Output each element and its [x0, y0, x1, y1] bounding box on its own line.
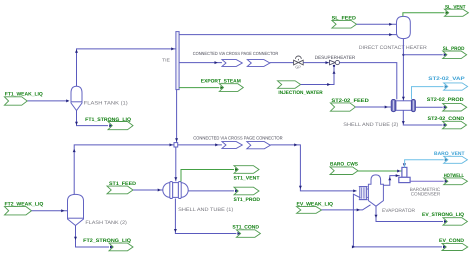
svg-text:FT1_STRONG_LIQ: FT1_STRONG_LIQ [85, 117, 131, 123]
sink flag EXPORT_STEAM [201, 78, 244, 91]
wire ST1 condensate to ST1_COND [174, 199, 241, 235]
svg-text:EXPORT_STEAM: EXPORT_STEAM [201, 78, 241, 84]
wire ST2-02_FEED to exchanger [355, 106, 391, 109]
sink flag HOTWELL [444, 173, 468, 185]
wire FT1 vapor riser to TIE [75, 47, 176, 86]
barometric condenser BC [399, 163, 410, 182]
sink flag ST2-02_PROD [427, 97, 467, 111]
sink flag ST2-02_VAP [428, 76, 467, 90]
wire ST2 product to ST2-02_PROD [415, 106, 447, 109]
wire valve to desuperheater [303, 61, 329, 64]
svg-text:ST2-02_PROD: ST2-02_PROD [427, 97, 464, 103]
wire FT1 feed line (FT1_WEAK_LIQ to flash tank 1) [27, 99, 69, 102]
svg-text:SL_VENT: SL_VENT [445, 4, 466, 10]
source flag FT2_WEAK_LIQ [5, 201, 44, 215]
source flag SL_FEED [332, 15, 357, 28]
sink flag ST1_PROD [234, 187, 261, 203]
label EVAPORATOR [382, 208, 415, 214]
svg-text:SHELL AND TUBE (2): SHELL AND TUBE (2) [343, 122, 398, 128]
wire ST2 condensate to ST2-02_COND [402, 110, 447, 126]
sink flag ST2-02_COND [428, 116, 467, 129]
sink flag FT2_STRONG_LIQ [83, 238, 133, 251]
svg-text:BARO_CWS: BARO_CWS [330, 162, 359, 168]
label FLASH TANK (2) [85, 220, 127, 226]
label FLASH TANK (1) [84, 100, 128, 106]
svg-text:DIRECT CONTACT HEATER: DIRECT CONTACT HEATER [359, 45, 427, 51]
flash tank FT1 (1) [71, 86, 82, 110]
sink flag EV_STRONG_LIQ [422, 212, 467, 225]
wire ST1 vent to ST1_VENT (green) [181, 168, 238, 181]
wire FT1 bottoms to FT1_STRONG_LIQ [75, 111, 112, 128]
wire heater bottoms down to shell and tube 2 shell inlet [402, 39, 405, 101]
label SHELL AND TUBE (2) [343, 122, 398, 128]
wire junction to cross page connector (bottom) [178, 143, 222, 146]
svg-text:CONDENSER: CONDENSER [411, 192, 441, 198]
source flag EV_WEAK_LIQ [297, 202, 334, 214]
wire cross page connector to evaporator steam inlet [270, 143, 356, 192]
wire FT2 vapor riser to junction [73, 143, 174, 194]
svg-text:SL_PROD: SL_PROD [443, 46, 465, 52]
tie junction TIE [162, 32, 179, 90]
evaporator EV [359, 175, 384, 206]
svg-text:ST2-02_FEED: ST2-02_FEED [331, 98, 369, 104]
svg-text:FT2_WEAK_LIQ: FT2_WEAK_LIQ [5, 201, 44, 207]
wire TIE to direct contact heater [179, 33, 396, 36]
direct contact heater U1 [397, 16, 411, 38]
shell and tube HX2 [391, 99, 415, 111]
sink flag BARO_VENT [434, 151, 467, 163]
source flag BARO_CWS [330, 162, 359, 175]
wire TIE to export steam (green) [179, 86, 224, 89]
wire evaporator condensate to EV_COND [352, 194, 446, 248]
source flag FT1_WEAK_LIQ [4, 92, 43, 106]
shell and tube HX1 [163, 182, 188, 199]
svg-text:GP: GP [295, 65, 301, 70]
svg-text:FLASH TANK (2): FLASH TANK (2) [85, 220, 127, 226]
wire evaporator strong liquor to EV_STRONG_LIQ [375, 206, 448, 223]
label BAROMETRIC CONDENSER [410, 187, 441, 198]
svg-text:ST2-02_VAP: ST2-02_VAP [428, 76, 465, 82]
label DIRECT CONTACT HEATER [359, 45, 427, 51]
label DESUPERHEATER [315, 55, 356, 61]
wire desuperheater to shell and tube 2 (tube side) [340, 63, 397, 100]
wire TIE down to junction node [175, 90, 178, 143]
wire condenser to HOTWELL [410, 180, 448, 183]
svg-text:HOTWELL: HOTWELL [444, 173, 464, 179]
wire junction down to shell and tube 1 [174, 147, 177, 181]
source flag ST1_FEED [107, 181, 136, 194]
svg-text:EV_COND: EV_COND [439, 238, 464, 244]
svg-text:CONNECTED VIA CROSS PAGE CONNE: CONNECTED VIA CROSS PAGE CONNECTOR [193, 135, 283, 140]
svg-text:INJECTION_WATER: INJECTION_WATER [278, 90, 323, 96]
svg-text:EV_STRONG_LIQ: EV_STRONG_LIQ [422, 212, 464, 218]
wire condenser vent to BARO_VENT (cyan) [405, 158, 448, 167]
svg-text:ST2-02_COND: ST2-02_COND [428, 116, 465, 122]
svg-text:EV_WEAK_LIQ: EV_WEAK_LIQ [297, 202, 334, 208]
sink flag ST1_VENT [234, 166, 260, 182]
wire SL_FEED to direct contact heater [357, 23, 397, 26]
svg-text:DESUPERHEATER: DESUPERHEATER [315, 55, 356, 61]
wire ST1_FEED to exchanger [133, 189, 163, 192]
control valve GP [294, 56, 304, 69]
svg-text:FT2_STRONG_LIQ: FT2_STRONG_LIQ [83, 238, 131, 244]
label SHELL AND TUBE (1) [178, 207, 233, 213]
wire heater vent to SL_VENT (green) [403, 11, 449, 16]
wire injection water to desuperheater [301, 67, 336, 86]
junction node [174, 143, 178, 147]
svg-text:ST1_VENT: ST1_VENT [234, 175, 260, 181]
wire FT2_WEAK_LIQ to flash tank 2 [32, 209, 68, 212]
sink flag ST1_COND [232, 224, 260, 237]
desuperheater DS [330, 60, 340, 67]
svg-text:TIE: TIE [162, 57, 170, 62]
sink flag EV_COND [439, 238, 468, 250]
cross page connector top pair [222, 60, 270, 67]
source flag ST2-02_FEED [330, 98, 369, 111]
svg-text:CONNECTED VIA CROSS PAGE CONNE: CONNECTED VIA CROSS PAGE CONNECTOR [193, 51, 279, 56]
wire EV_WEAK_LIQ to evaporator [322, 205, 371, 212]
flash tank FT2 (2) [68, 194, 84, 225]
wire FT2 bottoms to FT2_STRONG_LIQ [74, 226, 113, 249]
wire evaporator vapour to barometric condenser [383, 174, 399, 185]
label CONNECTED VIA CROSS PAGE CONNECTOR (top) [193, 51, 279, 56]
svg-text:FT1_WEAK_LIQ: FT1_WEAK_LIQ [5, 92, 43, 98]
source flag INJECTION_WATER [278, 81, 324, 96]
cross page connector bottom pair [222, 142, 270, 149]
sink flag SL_PROD [443, 46, 467, 59]
svg-text:EVAPORATOR: EVAPORATOR [382, 208, 415, 214]
svg-text:ST1_COND: ST1_COND [232, 224, 259, 230]
wire ST1 product to ST1_PROD [188, 189, 238, 192]
sink flag FT1_STRONG_LIQ [85, 117, 133, 130]
wire TIE to cross page connector (top) [179, 61, 222, 64]
svg-text:ST1_FEED: ST1_FEED [109, 181, 136, 187]
wire cross page connector to valve GP [270, 62, 294, 64]
wire BARO_CWS to condenser (green) [358, 170, 402, 173]
label CONNECTED VIA CROSS PAGE CONNECTOR (bottom) [193, 135, 283, 140]
svg-text:FLASH TANK (1): FLASH TANK (1) [84, 100, 128, 106]
wire branch to SL_PROD [403, 53, 447, 56]
wire ST2 vapour to ST2-02_VAP (cyan) [412, 85, 448, 99]
svg-text:SHELL AND TUBE (1): SHELL AND TUBE (1) [178, 207, 233, 213]
svg-text:BARO_VENT: BARO_VENT [434, 151, 465, 157]
sink flag SL_VENT [445, 4, 469, 16]
svg-text:ST1_PROD: ST1_PROD [234, 197, 261, 203]
svg-text:SL_FEED: SL_FEED [332, 15, 357, 21]
